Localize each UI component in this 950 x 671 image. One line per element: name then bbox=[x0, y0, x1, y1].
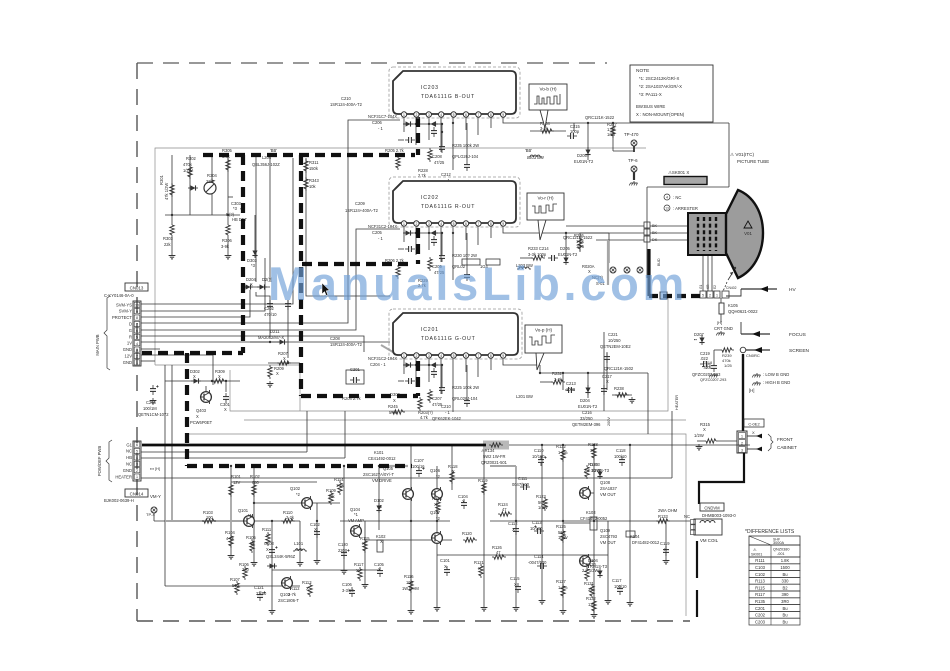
svg-text:1: 1 bbox=[136, 475, 138, 479]
svg-text:C113: C113 bbox=[532, 520, 542, 525]
svg-text:560: 560 bbox=[232, 583, 240, 588]
picture tube V01 bell bbox=[726, 190, 763, 278]
svg-text:1.8K: 1.8K bbox=[781, 558, 790, 563]
svg-text:GND: GND bbox=[123, 347, 132, 352]
ground amp13 bbox=[605, 598, 612, 604]
svg-text:: NC: : NC bbox=[673, 195, 681, 200]
wire IC202 pin5 stub bbox=[452, 227, 454, 280]
wire IC203 pin2 stub bbox=[415, 117, 417, 145]
resistor R114 bbox=[338, 481, 342, 495]
wire r311 col bbox=[305, 158, 307, 190]
capacitor C213 bbox=[565, 387, 575, 393]
svg-text:1-5k: 1-5k bbox=[336, 483, 345, 488]
svg-text:1500: 1500 bbox=[780, 565, 790, 570]
svg-text:Q106: Q106 bbox=[430, 468, 441, 473]
svg-text:4: 4 bbox=[440, 113, 442, 117]
wire IC203 pin5 stub bbox=[452, 117, 454, 170]
wire sk001 left drop bbox=[646, 187, 648, 278]
svg-text:C216: C216 bbox=[582, 410, 593, 415]
svg-text:QFK62EK-1042: QFK62EK-1042 bbox=[432, 416, 462, 421]
svg-text:*3: PA111-X: *3: PA111-X bbox=[639, 92, 662, 97]
wire screen col bbox=[700, 350, 726, 382]
transistor Q108 bbox=[580, 486, 591, 500]
ground amp1 bbox=[228, 553, 235, 559]
transistor Q103 bbox=[282, 576, 293, 590]
wire amp v300 bbox=[299, 521, 301, 560]
svg-text:R305: R305 bbox=[222, 148, 233, 153]
resistor R119 bbox=[482, 481, 486, 495]
wire r306 col bbox=[227, 237, 229, 253]
svg-text:4-7k: 4-7k bbox=[226, 536, 235, 541]
capacitor C112 bbox=[513, 525, 519, 535]
picture tube V01 neck bbox=[688, 213, 726, 255]
svg-text:C117: C117 bbox=[612, 578, 622, 583]
testpoint S201 bbox=[610, 267, 616, 273]
transistor Q106 bbox=[432, 487, 443, 501]
wire amp rail 503 bbox=[254, 502, 340, 504]
svg-text:▪▪ [H]: ▪▪ [H] bbox=[702, 364, 711, 369]
svg-text:K101: K101 bbox=[374, 450, 384, 455]
capacitor C118 bbox=[619, 456, 625, 466]
svg-text:EU01N-T2: EU01N-T2 bbox=[574, 159, 594, 164]
svg-text:SK001: SK001 bbox=[751, 553, 762, 557]
resistor R125 bbox=[561, 529, 565, 543]
wire amp rail 521 bbox=[172, 520, 300, 522]
svg-text:VM OUT: VM OUT bbox=[600, 540, 616, 545]
ground amp3 bbox=[269, 608, 276, 614]
wire tp amp bbox=[153, 513, 155, 521]
resistor R244 bbox=[396, 265, 400, 279]
wire IC201 pin7 stub bbox=[477, 359, 479, 377]
outer dashed border top bbox=[137, 62, 607, 64]
capacitor C102 bbox=[314, 528, 320, 538]
svg-text:R233 C214: R233 C214 bbox=[528, 246, 549, 251]
svg-text:D205: D205 bbox=[577, 153, 588, 158]
svg-text:47k 1/2W: 47k 1/2W bbox=[164, 183, 169, 200]
resistor R122 bbox=[561, 448, 565, 462]
svg-text:GND: GND bbox=[123, 360, 132, 365]
svg-text:⚠SK001 X: ⚠SK001 X bbox=[668, 170, 689, 175]
svg-text:X: X bbox=[276, 371, 279, 376]
svg-text:X: X bbox=[266, 533, 269, 538]
bus wire H y155 bbox=[203, 153, 415, 157]
resistor R130 bbox=[585, 567, 589, 581]
svg-text:39: 39 bbox=[588, 587, 593, 592]
svg-text:: HIGH B GND: : HIGH B GND bbox=[763, 380, 790, 385]
resistor R113 bbox=[308, 583, 312, 597]
svg-text:CN402: CN402 bbox=[726, 286, 737, 290]
svg-text:HEATER: HEATER bbox=[675, 395, 679, 410]
bus wire H y466 bbox=[187, 464, 412, 468]
CN013 pin names bbox=[112, 302, 132, 365]
wire IC203 under row bbox=[404, 123, 441, 125]
svg-text:C202: C202 bbox=[755, 613, 766, 618]
wire qrc row v bbox=[612, 123, 614, 151]
svg-text:VM OUT: VM OUT bbox=[600, 492, 616, 497]
bus wire V x187 bbox=[185, 353, 189, 466]
ManualsLib watermark bbox=[268, 257, 688, 310]
CN012 pin names bbox=[115, 442, 132, 479]
resistor R126 bbox=[492, 555, 506, 559]
label CRT GND bbox=[714, 320, 733, 335]
svg-text:NC: NC bbox=[126, 449, 132, 454]
svg-text:BK: BK bbox=[652, 231, 658, 235]
resistor R129 bbox=[585, 465, 589, 479]
svg-text:5: 5 bbox=[453, 222, 455, 226]
testpoint S202 bbox=[624, 267, 630, 273]
svg-text:9: 9 bbox=[502, 113, 504, 117]
diode D209 bbox=[428, 121, 438, 126]
transistor Q101 bbox=[244, 514, 255, 528]
svg-text:8: 8 bbox=[490, 113, 492, 117]
resistor R131 bbox=[590, 584, 594, 598]
svg-text:C102: C102 bbox=[755, 572, 766, 577]
svg-text:MA2062/M7-X: MA2062/M7-X bbox=[258, 335, 284, 340]
svg-text:FOCUS: FOCUS bbox=[789, 332, 806, 338]
wire amp v231 bbox=[230, 466, 232, 553]
wire amp rail 521b bbox=[340, 520, 450, 522]
wire hdet v1 bbox=[171, 155, 173, 223]
svg-text:QPLG26J-104: QPLG26J-104 bbox=[452, 154, 479, 159]
wire amp v437 bbox=[436, 466, 438, 605]
svg-text:DF41482-0012: DF41482-0012 bbox=[632, 540, 660, 545]
svg-text:7: 7 bbox=[477, 113, 479, 117]
resistor R118 bbox=[450, 470, 454, 484]
wire G signal bbox=[141, 336, 364, 352]
wire q403 stub bbox=[205, 386, 207, 391]
wire crt bk row2 bbox=[580, 232, 644, 234]
wire crt to hv bbox=[726, 289, 741, 296]
amp enclosure top bbox=[244, 419, 686, 421]
label C-0E2 bbox=[744, 419, 764, 435]
ground amp16 bbox=[314, 558, 321, 564]
resistor R232 bbox=[551, 380, 565, 384]
svg-text:Q109: Q109 bbox=[600, 528, 611, 533]
resistor R123 bbox=[543, 497, 547, 511]
svg-text:BK: BK bbox=[652, 224, 658, 228]
resistor R136 bbox=[436, 500, 440, 514]
svg-text:R205 2.7k: R205 2.7k bbox=[385, 148, 405, 153]
svg-text:Q107: Q107 bbox=[430, 510, 441, 515]
wire hdet q bbox=[228, 196, 233, 198]
op-amp IC203 TDA6111G B-OUT bbox=[389, 67, 520, 118]
svg-text:TP-6: TP-6 bbox=[628, 158, 638, 163]
wire d204 col up bbox=[255, 155, 257, 282]
svg-text:X: X bbox=[462, 499, 465, 504]
transistor Q109 bbox=[580, 554, 591, 568]
diode D101 bbox=[267, 563, 277, 568]
svg-text:X: X bbox=[478, 566, 481, 571]
svg-text:QBL356J-102Z: QBL356J-102Z bbox=[252, 162, 280, 167]
svg-text:2.7 1/2W: 2.7 1/2W bbox=[582, 568, 599, 573]
wire amp rail 555 bbox=[437, 554, 608, 556]
svg-text:HB DET: HB DET bbox=[232, 217, 248, 222]
resistor R227 bbox=[611, 124, 615, 138]
svg-text:D102: D102 bbox=[374, 498, 385, 503]
wire IC201 c col bbox=[441, 365, 443, 384]
svg-text:C216: C216 bbox=[146, 400, 157, 405]
svg-text:L101: L101 bbox=[294, 541, 304, 546]
wire IC201 pin9 to right bbox=[503, 359, 540, 365]
svg-text:4: 4 bbox=[136, 342, 138, 346]
svg-text:IC201: IC201 bbox=[421, 327, 439, 333]
resistor R103 bbox=[202, 519, 216, 523]
svg-text:SVM-YS: SVM-YS bbox=[116, 302, 132, 307]
label C-KY0146-0A-0 bbox=[104, 293, 134, 298]
svg-text:5W2 1W-FR: 5W2 1W-FR bbox=[483, 454, 505, 459]
difference lists table bbox=[745, 529, 800, 625]
capacitor C106 bbox=[349, 587, 355, 597]
svg-text:3-3k: 3-3k bbox=[554, 377, 563, 382]
svg-text:Vo-b (H): Vo-b (H) bbox=[539, 87, 557, 92]
svg-text:6: 6 bbox=[465, 113, 467, 117]
gray trace k101 bbox=[383, 465, 408, 467]
label 4 NC bbox=[664, 194, 681, 200]
svg-text:C201: C201 bbox=[755, 606, 766, 611]
svg-text:1000: 1000 bbox=[566, 387, 576, 392]
capacitor C120 bbox=[341, 549, 350, 559]
svg-text:33/250: 33/250 bbox=[580, 416, 593, 421]
svg-text:-001: -001 bbox=[777, 552, 785, 556]
resistor R115 bbox=[363, 539, 367, 553]
svg-text:3R0: 3R0 bbox=[781, 599, 789, 604]
capacitor C121 bbox=[257, 591, 266, 601]
wire neck down2 bbox=[707, 255, 709, 291]
wire r236 col bbox=[579, 233, 581, 252]
crt pin boxes bbox=[700, 291, 729, 298]
svg-text:C213: C213 bbox=[566, 381, 577, 386]
wire k103 row bbox=[563, 522, 590, 524]
resistor R105 bbox=[250, 539, 254, 553]
wire IC203 pin3 stub bbox=[428, 117, 430, 140]
capacitor C111 bbox=[520, 484, 530, 490]
svg-text:R102: R102 bbox=[250, 474, 261, 479]
resistor R247 bbox=[396, 156, 400, 170]
wire pow rise1 bbox=[306, 411, 308, 452]
svg-text:R101: R101 bbox=[231, 474, 242, 479]
svg-text:TP-4: TP-4 bbox=[146, 512, 155, 517]
resistor R127 bbox=[561, 584, 565, 598]
svg-text:CABINET: CABINET bbox=[777, 445, 797, 450]
resistor R306 bbox=[226, 223, 230, 237]
svg-text:R127: R127 bbox=[556, 579, 567, 584]
resistor R302 bbox=[188, 165, 192, 179]
svg-text:⚠ V01(ITC): ⚠ V01(ITC) bbox=[730, 152, 754, 157]
svg-text:5: 5 bbox=[136, 335, 138, 339]
svg-text:R122: R122 bbox=[556, 444, 567, 449]
wire amp v411 bbox=[410, 445, 412, 608]
capacitor C207e bbox=[439, 384, 445, 394]
inductor L101 bbox=[293, 549, 307, 551]
resistor R238 bbox=[615, 393, 629, 397]
svg-text:2SC4793: 2SC4793 bbox=[600, 534, 618, 539]
svg-text:6: 6 bbox=[465, 222, 467, 226]
svg-text:1/25: 1/25 bbox=[576, 244, 585, 249]
waveform callout Vo-p bbox=[525, 325, 562, 370]
resistor R234 bbox=[540, 129, 554, 133]
wire amp v254 bbox=[253, 466, 255, 560]
wire protect bbox=[141, 290, 250, 317]
wire d204 d203 row bbox=[243, 286, 270, 288]
ground amp10 bbox=[539, 598, 546, 604]
svg-text:3: 3 bbox=[136, 462, 138, 466]
wire IC202 right drop bbox=[608, 233, 610, 263]
svg-text:2SC1627A/0Y/-T: 2SC1627A/0Y/-T bbox=[363, 472, 394, 477]
wire 12v line bbox=[141, 355, 213, 385]
svg-text:47: 47 bbox=[502, 507, 507, 512]
wire IC201 pin4 stub bbox=[440, 359, 442, 394]
svg-text:VM COIL: VM COIL bbox=[700, 538, 719, 543]
diode D204 bbox=[585, 385, 590, 395]
wire amp v516 bbox=[515, 466, 517, 605]
svg-text:IC202: IC202 bbox=[421, 195, 439, 201]
svg-text:R112: R112 bbox=[290, 586, 300, 591]
svg-text:X: X bbox=[482, 484, 485, 489]
transistor Q104 bbox=[351, 524, 362, 538]
svg-text:Bu: Bu bbox=[782, 606, 788, 611]
diode D204a bbox=[243, 284, 253, 289]
front cabinet arrows bbox=[747, 434, 797, 452]
svg-text:R232: R232 bbox=[552, 371, 563, 376]
capacitor C205c bbox=[431, 368, 437, 378]
svg-text:R119: R119 bbox=[478, 478, 488, 483]
svg-text:3-3/50: 3-3/50 bbox=[342, 588, 354, 593]
svg-text:K104: K104 bbox=[630, 534, 640, 539]
svg-text:3-9k: 3-9k bbox=[221, 244, 230, 249]
svg-text:*DIFFERENCE LISTS: *DIFFERENCE LISTS bbox=[745, 529, 795, 535]
svg-text:R117: R117 bbox=[755, 592, 765, 597]
capacitor C104 bbox=[461, 499, 467, 509]
diode D214 bbox=[428, 362, 438, 367]
ground amp17 bbox=[297, 560, 304, 566]
wire left col1 bbox=[164, 365, 166, 586]
capacitor C216 bbox=[150, 385, 159, 395]
svg-text:BJK002-0639-H: BJK002-0639-H bbox=[104, 498, 134, 503]
svg-text:R135: R135 bbox=[755, 599, 766, 604]
svg-text:9: 9 bbox=[502, 354, 504, 358]
svg-text:C103: C103 bbox=[755, 565, 766, 570]
wire c217 col bbox=[606, 352, 608, 390]
svg-text:DHMB003-1093-0: DHMB003-1093-0 bbox=[702, 513, 736, 518]
svg-text:1SR124-400A-T2: 1SR124-400A-T2 bbox=[330, 342, 363, 347]
svg-text:HV: HV bbox=[789, 287, 796, 293]
svg-text:6: 6 bbox=[136, 329, 138, 333]
svg-text:-0047/500: -0047/500 bbox=[528, 560, 547, 565]
diode D302 bbox=[191, 378, 201, 383]
svg-text:K105: K105 bbox=[728, 303, 738, 308]
svg-text:R235 100k 2W: R235 100k 2W bbox=[452, 143, 479, 148]
svg-text:1: 1 bbox=[403, 354, 405, 358]
wire amp v666 bbox=[665, 521, 667, 558]
svg-text:KR: KR bbox=[706, 284, 710, 289]
diode D208 bbox=[403, 121, 413, 126]
svg-text:QSL244K-5R6Z: QSL244K-5R6Z bbox=[266, 554, 296, 559]
svg-text:1/2W: 1/2W bbox=[538, 505, 548, 510]
wire amp v365 bbox=[364, 521, 366, 582]
label 200V bbox=[607, 417, 611, 426]
svg-text:1W OHM: 1W OHM bbox=[402, 586, 419, 591]
svg-text:GND: GND bbox=[123, 468, 132, 473]
wire bk to neck3 bbox=[650, 239, 688, 241]
ground amp15 bbox=[663, 558, 670, 564]
svg-text:C210: C210 bbox=[341, 96, 352, 101]
svg-text:R115: R115 bbox=[755, 585, 765, 590]
wire amp v542 bbox=[541, 445, 543, 598]
svg-text:R225 100k 2W: R225 100k 2W bbox=[452, 385, 479, 390]
svg-text:7: 7 bbox=[477, 354, 479, 358]
capacitor C203 bbox=[285, 300, 291, 310]
connector front cabinet bbox=[737, 431, 747, 453]
svg-text:C203: C203 bbox=[755, 619, 766, 624]
svg-text:C112: C112 bbox=[508, 521, 518, 526]
svg-text:R111: R111 bbox=[262, 527, 272, 532]
svg-text:8: 8 bbox=[490, 354, 492, 358]
resistor R117 bbox=[358, 567, 362, 581]
capacitor C213b bbox=[464, 271, 470, 281]
svg-text:- 1: - 1 bbox=[378, 236, 384, 241]
svg-text:2: 2 bbox=[415, 222, 417, 226]
svg-text:2: 2 bbox=[136, 469, 138, 473]
svg-text:POW/DEF PWB: POW/DEF PWB bbox=[97, 446, 102, 476]
ground R209 bbox=[267, 381, 274, 387]
gray trace x608 bbox=[607, 240, 609, 285]
svg-text:1/2W: 1/2W bbox=[183, 168, 193, 173]
svg-text:HB: HB bbox=[126, 455, 132, 460]
inductor L203 bbox=[528, 155, 542, 157]
wire d204 col bbox=[587, 373, 589, 398]
svg-text:C120: C120 bbox=[338, 542, 349, 547]
svg-text:R304: R304 bbox=[207, 173, 218, 178]
svg-text:R113: R113 bbox=[755, 579, 765, 584]
wire IC203 c212 col bbox=[466, 123, 468, 161]
svg-text:3: 3 bbox=[428, 222, 430, 226]
diode D203 bbox=[257, 284, 267, 289]
svg-text:Vo-r (H): Vo-r (H) bbox=[537, 196, 554, 201]
svg-text:47: 47 bbox=[496, 550, 501, 555]
svg-text:X: X bbox=[380, 539, 383, 544]
wire IC203 c col bbox=[441, 124, 443, 143]
resistor R116 bbox=[409, 579, 413, 593]
wire tp470 link bbox=[613, 150, 634, 152]
svg-text:X: X bbox=[362, 541, 365, 546]
connector CNDVM label bbox=[700, 503, 724, 511]
svg-text:100: 100 bbox=[406, 580, 414, 585]
wire vcc rail bbox=[508, 444, 750, 446]
bus junction box bbox=[660, 292, 667, 299]
capacitor C205a bbox=[431, 127, 437, 137]
svg-text:R105: R105 bbox=[246, 535, 257, 540]
svg-text:C212: C212 bbox=[441, 172, 452, 177]
ground amp8 bbox=[481, 605, 488, 611]
wire IC203 pin9 to right rail bbox=[503, 117, 729, 123]
svg-text:QRZ0021-501: QRZ0021-501 bbox=[481, 460, 508, 465]
wire amp rail 482 bbox=[231, 481, 317, 483]
capacitor C206 bbox=[405, 137, 415, 143]
wire amp v594 bbox=[593, 445, 595, 612]
ground amp12 bbox=[591, 612, 598, 618]
capacitor C209e bbox=[439, 252, 445, 262]
svg-text:G1: G1 bbox=[126, 442, 132, 447]
ground R238 bbox=[629, 397, 636, 403]
svg-text:8: 8 bbox=[490, 222, 492, 226]
wire d205 col bbox=[587, 123, 589, 160]
capacitor C216b bbox=[601, 385, 607, 395]
wire IC201 pin8 stub bbox=[490, 359, 492, 370]
svg-text:13: 13 bbox=[665, 207, 669, 211]
svg-text:470/10: 470/10 bbox=[264, 312, 277, 317]
resistor R311 bbox=[304, 159, 308, 173]
thick line to cabinet bbox=[742, 354, 744, 431]
